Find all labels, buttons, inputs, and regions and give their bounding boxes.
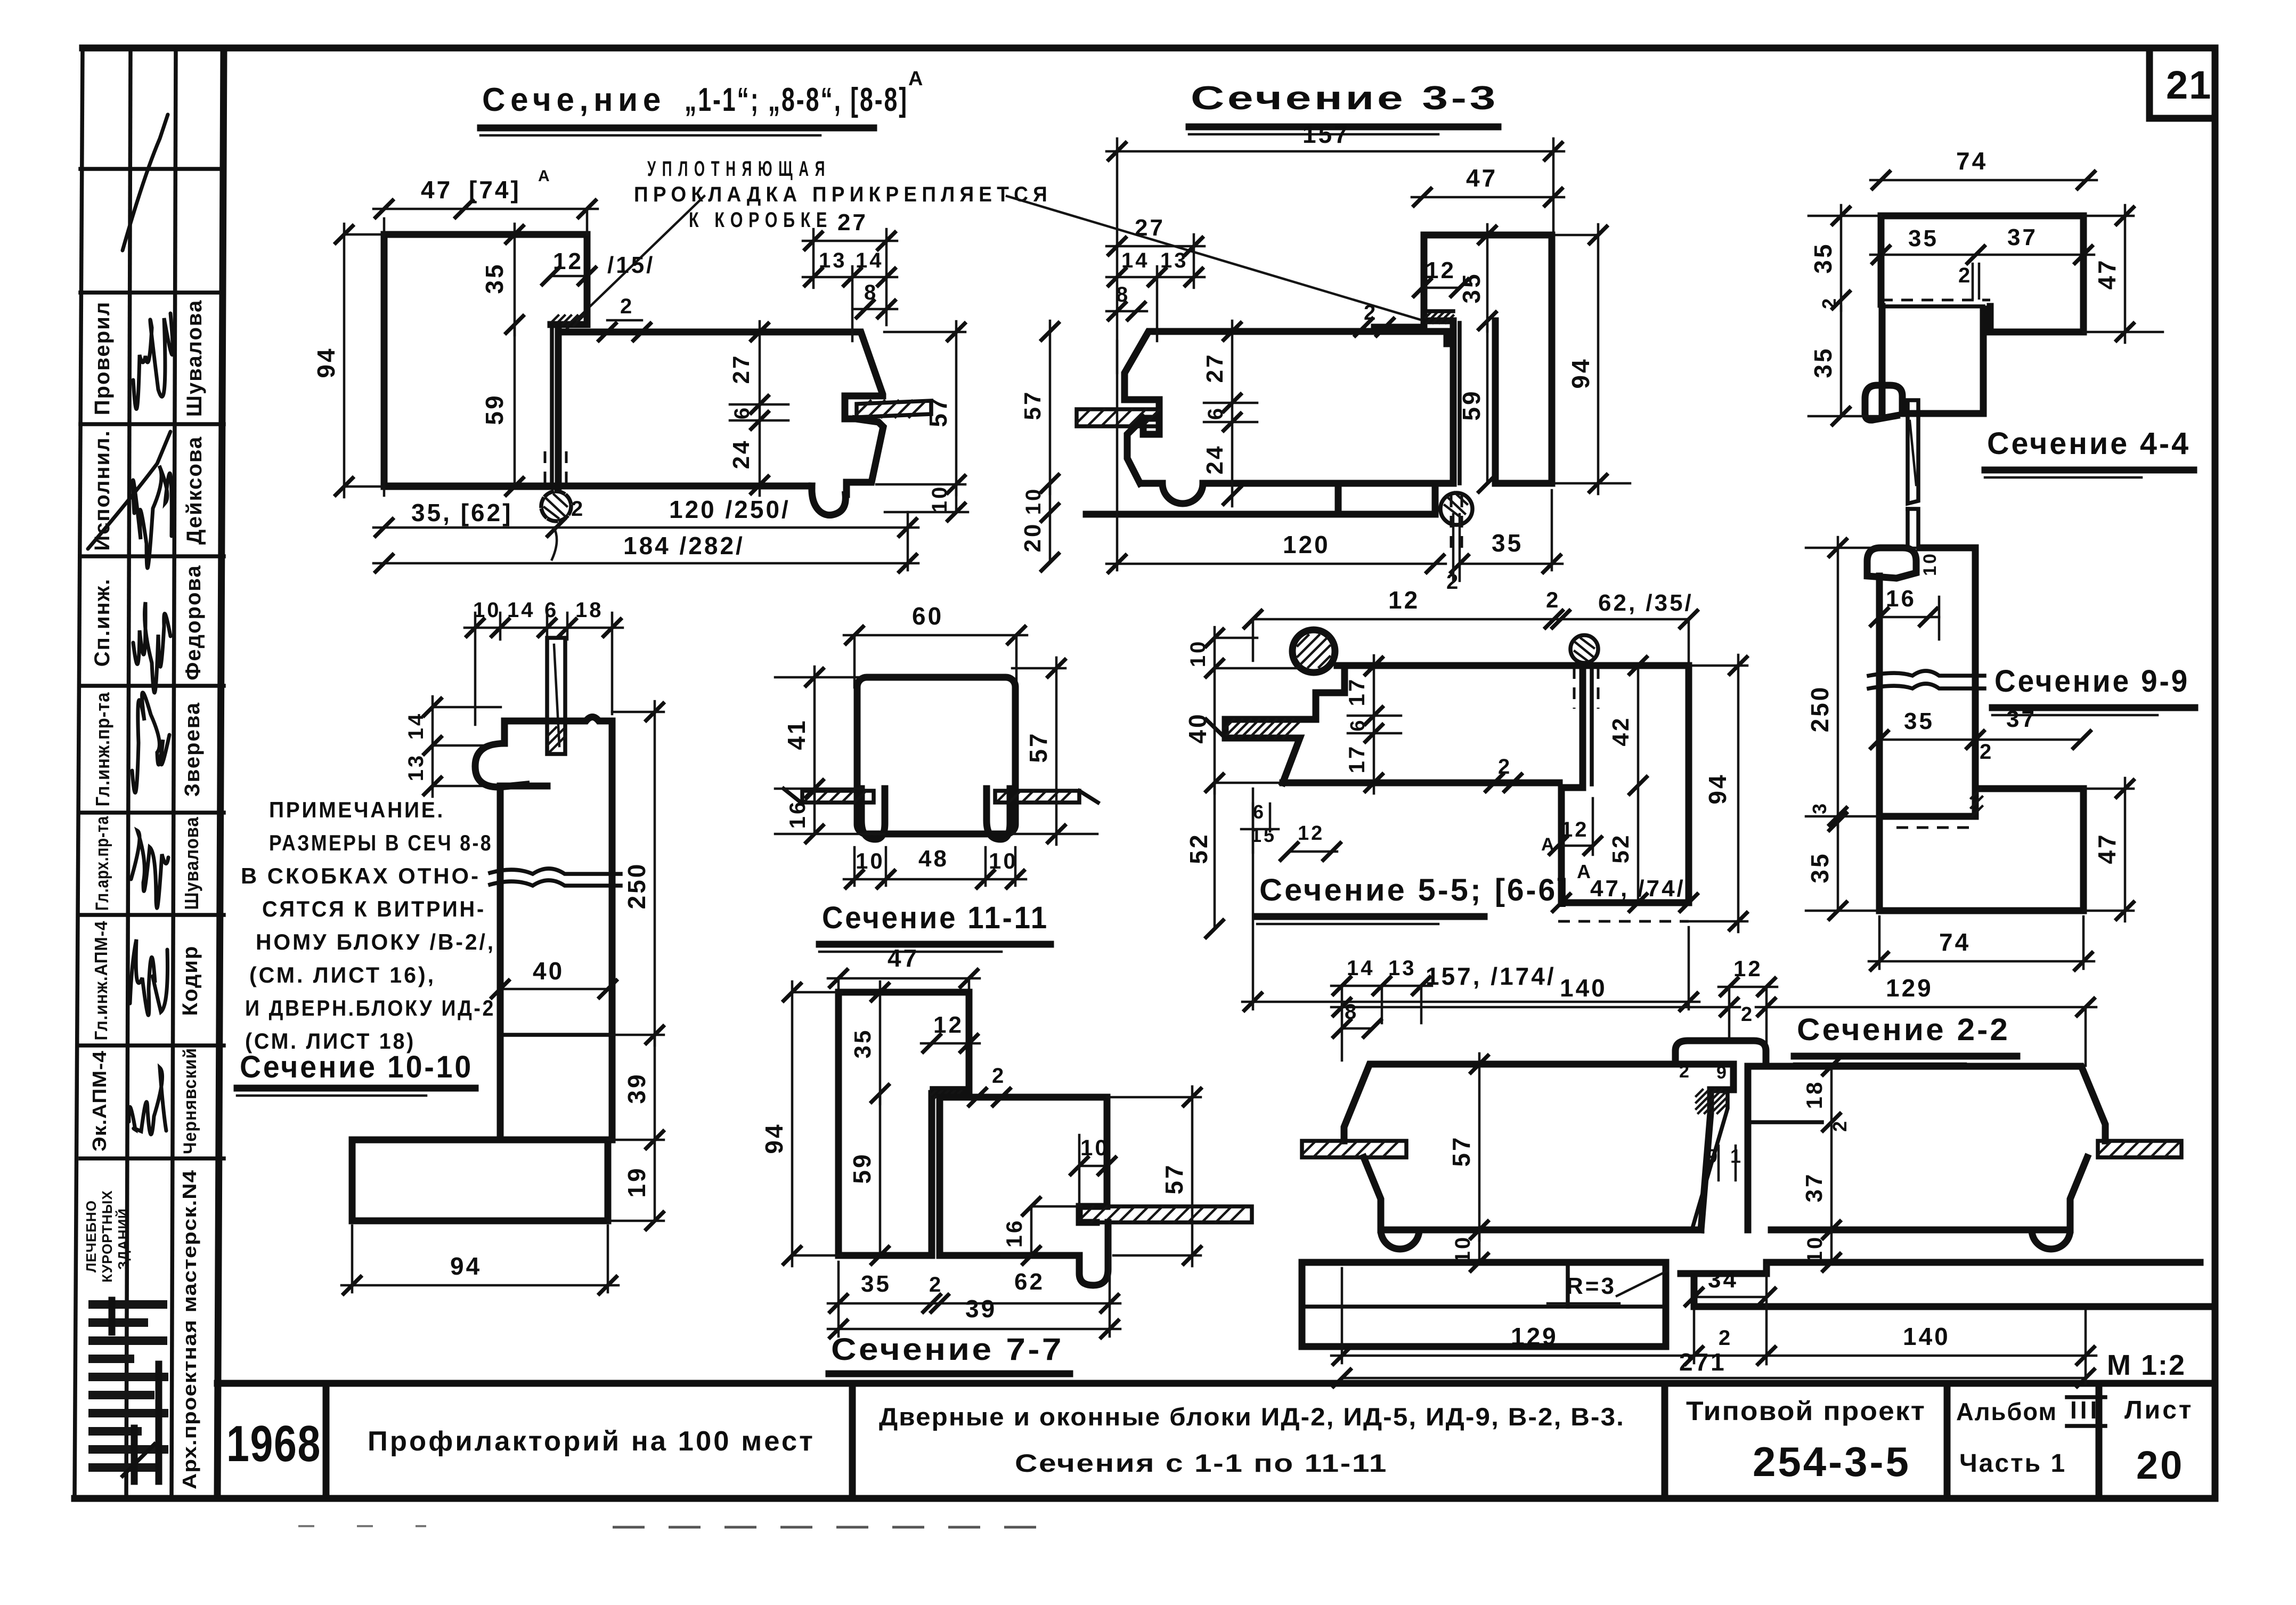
svg-text:R=3: R=3 (1566, 1273, 1616, 1299)
svg-text:12: 12 (933, 1012, 964, 1038)
svg-text:[74]: [74] (469, 176, 521, 204)
svg-text:16: 16 (1886, 586, 1916, 612)
svg-text:Лист: Лист (2124, 1396, 2193, 1424)
svg-text:2: 2 (1741, 1003, 1754, 1026)
svg-text:250: 250 (623, 862, 650, 910)
svg-text:27: 27 (837, 209, 868, 236)
svg-text:48: 48 (918, 846, 949, 872)
svg-text:12: 12 (1388, 586, 1420, 614)
svg-text:Федорова: Федорова (182, 564, 205, 680)
svg-text:2: 2 (992, 1064, 1006, 1088)
svg-text:35: 35 (1904, 708, 1934, 734)
svg-text:Гл.инж.АПМ-4: Гл.инж.АПМ-4 (91, 921, 111, 1041)
svg-text:Сечения с 1-1 по 11-11: Сечения с 1-1 по 11-11 (1015, 1449, 1388, 1477)
svg-text:16: 16 (1002, 1219, 1027, 1248)
svg-text:9: 9 (1716, 1063, 1729, 1083)
svg-text:10: 10 (1080, 1135, 1110, 1160)
svg-text:47: 47 (1466, 164, 1497, 192)
svg-text:59: 59 (481, 393, 508, 425)
svg-text:Сечение 10-10: Сечение 10-10 (240, 1050, 473, 1084)
svg-text:47: 47 (888, 944, 919, 972)
svg-text:57: 57 (1447, 1135, 1475, 1166)
svg-text:35: 35 (1806, 852, 1834, 883)
svg-text:40: 40 (1184, 712, 1211, 743)
svg-text:47, /74/: 47, /74/ (1590, 876, 1686, 902)
svg-text:К КОРОБКЕ: К КОРОБКЕ (689, 208, 833, 232)
svg-text:13: 13 (404, 753, 428, 782)
svg-text:21: 21 (2166, 63, 2212, 107)
svg-text:35, [62]: 35, [62] (411, 499, 513, 526)
svg-text:А: А (1577, 861, 1593, 882)
svg-text:39: 39 (623, 1072, 650, 1104)
svg-text:Шувалова: Шувалова (181, 817, 202, 910)
svg-text:35: 35 (1908, 225, 1939, 252)
svg-text:Дверные и оконные блоки ИД-2,: Дверные и оконные блоки ИД-2, ИД-5, ИД-9… (879, 1403, 1625, 1431)
svg-text:Арх.проектная мастерск.N4: Арх.проектная мастерск.N4 (178, 1170, 200, 1489)
svg-text:Гл.инж.пр-та: Гл.инж.пр-та (92, 692, 113, 807)
svg-text:62: 62 (1014, 1269, 1045, 1295)
svg-text:47: 47 (421, 176, 452, 204)
svg-text:Часть 1: Часть 1 (1959, 1449, 2066, 1478)
svg-text:59: 59 (1458, 389, 1485, 420)
svg-text:3: 3 (1809, 801, 1830, 814)
svg-text:Профилакторий на 100 мест: Профилакторий на 100 мест (368, 1426, 815, 1457)
svg-text:40: 40 (533, 957, 564, 985)
svg-text:35: 35 (1809, 346, 1837, 378)
svg-text:94: 94 (760, 1122, 788, 1154)
svg-text:Сече,ние: Сече,ние (482, 82, 666, 118)
svg-text:35: 35 (1458, 272, 1485, 303)
svg-text:57: 57 (1024, 731, 1052, 763)
svg-text:Сечение 5-5;: Сечение 5-5; (1259, 873, 1483, 907)
svg-text:52: 52 (1185, 832, 1212, 864)
svg-text:47: 47 (2093, 832, 2121, 864)
svg-text:Типовой проект: Типовой проект (1686, 1396, 1926, 1426)
svg-text:20: 20 (2136, 1443, 2184, 1487)
svg-text:120: 120 (1283, 531, 1330, 558)
svg-text:2: 2 (1980, 740, 1993, 764)
svg-text:35: 35 (861, 1271, 891, 1297)
svg-text:94: 94 (1704, 773, 1731, 804)
svg-text:Сечение 2-2: Сечение 2-2 (1797, 1012, 2010, 1047)
svg-text:ЗДАНИЙ: ЗДАНИЙ (115, 1208, 131, 1270)
svg-text:94: 94 (1567, 357, 1594, 388)
svg-text:2: 2 (620, 295, 634, 318)
svg-text:254-3-5: 254-3-5 (1753, 1438, 1911, 1485)
svg-text:И ДВЕРН.БЛОКУ ИД-2: И ДВЕРН.БЛОКУ ИД-2 (245, 995, 495, 1020)
svg-text:52: 52 (1608, 833, 1634, 864)
svg-text:184 /282/: 184 /282/ (623, 532, 745, 560)
svg-text:НОМУ БЛОКУ /В-2/,: НОМУ БЛОКУ /В-2/, (256, 929, 495, 954)
svg-text:М 1:2: М 1:2 (2107, 1349, 2186, 1381)
svg-text:Сечение 9-9: Сечение 9-9 (1994, 664, 2189, 699)
svg-text:35: 35 (1492, 529, 1523, 557)
svg-text:10: 10 (1803, 1235, 1827, 1263)
svg-text:Кодир: Кодир (178, 945, 202, 1016)
svg-text:27: 27 (728, 354, 754, 384)
svg-text:Сечение 4-4: Сечение 4-4 (1987, 426, 2191, 461)
svg-text:2: 2 (1679, 1061, 1691, 1082)
svg-text:Сечение 7-7: Сечение 7-7 (831, 1332, 1064, 1367)
svg-text:10: 10 (928, 485, 951, 513)
svg-text:41: 41 (783, 718, 810, 750)
svg-text:2: 2 (1719, 1326, 1732, 1350)
svg-text:ЛЕЧЕБНО: ЛЕЧЕБНО (83, 1200, 99, 1272)
svg-text:10: 10 (1920, 552, 1940, 576)
svg-text:20: 20 (1020, 522, 1046, 553)
svg-text:47: 47 (2093, 258, 2121, 289)
svg-text:94: 94 (312, 346, 340, 378)
svg-text:140: 140 (1903, 1323, 1950, 1350)
svg-text:10: 10 (1451, 1235, 1475, 1263)
svg-text:57: 57 (924, 395, 952, 427)
svg-text:250: 250 (1806, 685, 1834, 733)
svg-text:94: 94 (450, 1252, 482, 1280)
svg-text:39: 39 (965, 1295, 997, 1323)
svg-text:35: 35 (850, 1028, 876, 1059)
svg-text:Чернявский: Чернявский (180, 1048, 200, 1154)
svg-text:А: А (538, 167, 552, 185)
svg-text:35: 35 (1809, 242, 1837, 273)
svg-text:140: 140 (1560, 974, 1607, 1002)
svg-text:Альбом: Альбом (1956, 1398, 2057, 1425)
svg-text:60: 60 (912, 602, 943, 630)
svg-text:Шувалова: Шувалова (183, 299, 206, 417)
svg-text:6: 6 (1253, 801, 1266, 823)
svg-text:УПЛОТНЯЮЩАЯ: УПЛОТНЯЮЩАЯ (647, 157, 831, 181)
svg-text:27: 27 (1202, 353, 1228, 383)
svg-text:Дейксова: Дейксова (183, 436, 206, 545)
svg-text:74: 74 (1939, 928, 1971, 956)
svg-text:СЯТСЯ К ВИТРИН-: СЯТСЯ К ВИТРИН- (262, 896, 486, 921)
svg-text:37: 37 (2007, 224, 2038, 250)
svg-text:13: 13 (1388, 956, 1416, 980)
svg-text:74: 74 (1956, 147, 1988, 175)
svg-text:14: 14 (507, 598, 535, 622)
svg-text:157, /174/: 157, /174/ (1426, 962, 1556, 990)
svg-text:57: 57 (1020, 390, 1046, 420)
svg-text:Сп.инж.: Сп.инж. (91, 578, 114, 667)
svg-text:17: 17 (1344, 677, 1369, 707)
svg-text:/15/: /15/ (607, 252, 655, 278)
svg-text:Сечение 3-3: Сечение 3-3 (1191, 80, 1499, 117)
svg-text:РАЗМЕРЫ В СЕЧ 8-8: РАЗМЕРЫ В СЕЧ 8-8 (269, 830, 493, 855)
svg-text:57: 57 (1160, 1163, 1188, 1194)
svg-text:10: 10 (856, 848, 885, 873)
svg-text:ПРИМЕЧАНИЕ.: ПРИМЕЧАНИЕ. (269, 797, 445, 822)
svg-text:[6-6]: [6-6] (1495, 873, 1569, 907)
svg-text:18: 18 (1802, 1080, 1827, 1109)
svg-text:1968: 1968 (226, 1415, 321, 1472)
svg-text:Гл.арх.пр-та: Гл.арх.пр-та (92, 816, 112, 911)
svg-text:Зверева: Зверева (181, 702, 204, 797)
svg-text:2: 2 (1818, 296, 1840, 309)
svg-text:34: 34 (1708, 1267, 1738, 1293)
svg-text:КУРОРТНЫХ: КУРОРТНЫХ (99, 1190, 115, 1282)
svg-text:10: 10 (1022, 487, 1045, 515)
svg-text:27: 27 (1135, 215, 1165, 241)
svg-text:2: 2 (571, 497, 585, 521)
svg-text:12: 12 (1298, 822, 1324, 845)
svg-text:157: 157 (1302, 120, 1350, 148)
svg-text:16: 16 (785, 800, 810, 829)
svg-text:2: 2 (1958, 264, 1972, 287)
svg-text:129: 129 (1511, 1323, 1558, 1350)
svg-text:129: 129 (1886, 974, 1933, 1002)
svg-text:15: 15 (1251, 824, 1276, 846)
svg-text:10: 10 (473, 598, 501, 622)
svg-text:24: 24 (728, 439, 754, 469)
svg-text:2: 2 (1546, 587, 1560, 612)
svg-text:А: А (1541, 834, 1557, 855)
svg-text:271: 271 (1679, 1348, 1727, 1376)
svg-text:Проверил: Проверил (91, 301, 114, 415)
svg-text:В СКОБКАХ ОТНО-: В СКОБКАХ ОТНО- (241, 863, 481, 888)
svg-text:17: 17 (1344, 744, 1369, 774)
svg-text:59: 59 (848, 1152, 876, 1184)
svg-text:18: 18 (575, 598, 604, 622)
svg-text:Эк.АПМ-4: Эк.АПМ-4 (88, 1050, 110, 1152)
svg-text:35: 35 (481, 262, 508, 294)
svg-text:(СМ. ЛИСТ 16),: (СМ. ЛИСТ 16), (249, 962, 436, 987)
svg-text:А: А (908, 68, 925, 90)
svg-text:24: 24 (1202, 444, 1228, 475)
svg-text:120 /250/: 120 /250/ (669, 496, 791, 523)
svg-text:62, /35/: 62, /35/ (1598, 590, 1693, 616)
svg-text:III: III (2070, 1396, 2100, 1424)
svg-text:Сечение 11-11: Сечение 11-11 (822, 901, 1049, 935)
svg-text:37: 37 (1801, 1172, 1827, 1203)
svg-text:42: 42 (1608, 716, 1634, 747)
svg-text:19: 19 (623, 1166, 650, 1197)
svg-text:„1-1“; „8-8“, [8-8]: „1-1“; „8-8“, [8-8] (685, 82, 908, 118)
